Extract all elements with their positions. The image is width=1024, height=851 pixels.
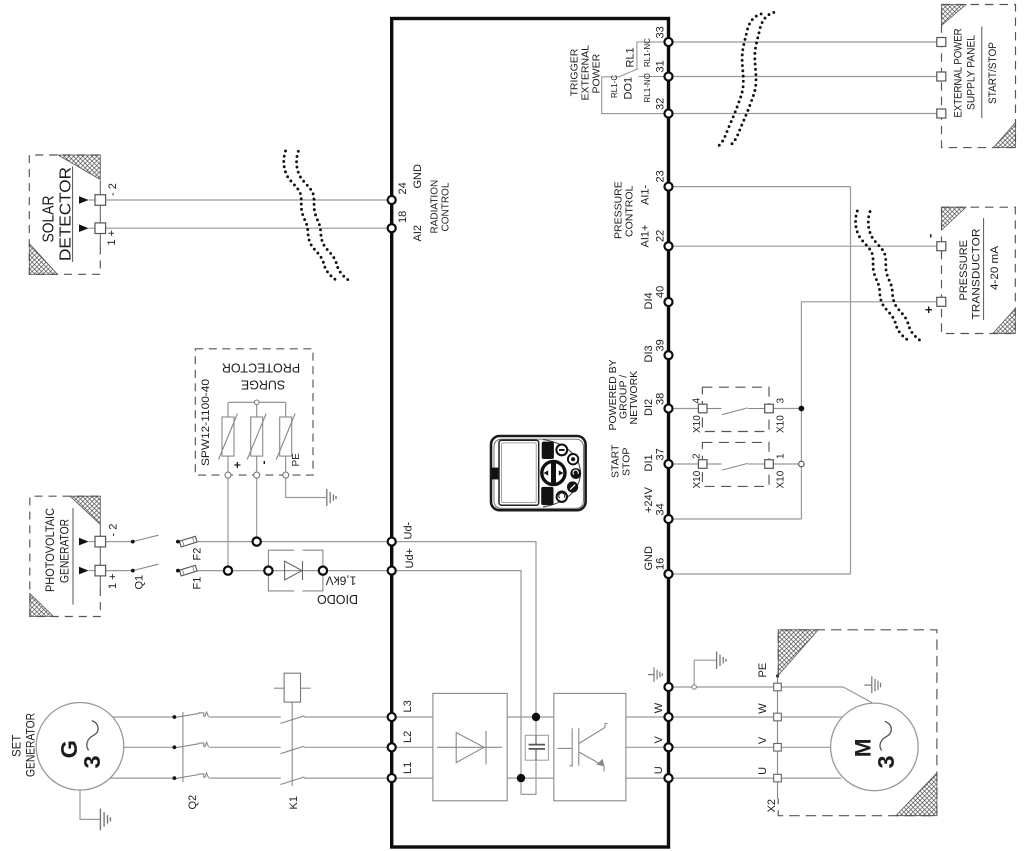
svg-text:33: 33: [655, 26, 667, 38]
svg-text:- 2: - 2: [107, 183, 119, 196]
relay RL1 arm: [619, 69, 639, 77]
PV arrow 1+: [79, 567, 89, 575]
svg-text:DO1: DO1: [623, 77, 635, 100]
svg-text:F1: F1: [192, 577, 204, 590]
breaker Q2 hook bottom: [199, 773, 209, 778]
svg-text:16: 16: [655, 558, 667, 570]
pressure transductor box: [942, 207, 1016, 333]
contactor K1 coil stub right: [301, 687, 311, 689]
svg-text:X2: X2: [766, 799, 778, 812]
wavy cable marker solar curve 1: [284, 151, 338, 281]
terminal 32: [664, 109, 672, 117]
hatch power panel box bottom-right: [994, 123, 1016, 148]
svg-text:Q2: Q2: [187, 795, 199, 810]
PV arrow -2: [79, 538, 89, 546]
svg-text:PHOTOVOLTAIC: PHOTOVOLTAIC: [45, 508, 57, 592]
wavy cable marker pressure curve 1: [856, 211, 910, 341]
terminal 23: [664, 183, 672, 191]
svg-text:3: 3: [873, 755, 899, 768]
wire generator phase L1: [110, 777, 174, 779]
ground generator: [100, 809, 110, 831]
terminal 34: [664, 515, 672, 523]
X2 connector line: [777, 676, 779, 798]
node open PE branch: [692, 685, 696, 689]
svg-text:K1: K1: [288, 796, 300, 809]
hatch pressure box bottom-right: [993, 309, 1016, 334]
svg-text:DIODO: DIODO: [317, 592, 358, 606]
svg-text:X10: X10: [692, 470, 703, 488]
switch Q1 blade lower: [133, 564, 159, 570]
svg-text:START/STOP: START/STOP: [987, 42, 999, 104]
node surge plus: [225, 472, 231, 478]
wire K1 to terminal L1: [304, 777, 387, 779]
contactor K1 linkage: [291, 702, 293, 786]
svg-text:PE: PE: [291, 453, 302, 467]
wire DC rail bottom: [507, 777, 554, 779]
wavy cable marker power curve 1: [729, 12, 774, 146]
wavy cable marker pressure curve 2: [868, 212, 922, 342]
svg-text:1: 1: [776, 453, 787, 459]
terminal square solar -2: [95, 195, 106, 206]
wire generator phase L2: [124, 746, 175, 748]
rectifier diode symbol: [437, 731, 502, 765]
varistor 1 surge: [219, 403, 238, 472]
svg-text:RL1-C: RL1-C: [610, 75, 619, 98]
wire K1 to terminal L3: [304, 716, 387, 718]
svg-text:+: +: [231, 461, 245, 468]
terminal W: [664, 713, 672, 721]
PV edge segments: [99, 525, 101, 589]
capacitor plates: [529, 735, 545, 760]
diode symbol: [285, 561, 303, 580]
X2 square V: [774, 744, 782, 752]
svg-text:3: 3: [79, 755, 105, 768]
wire terminal 23 AI1-: [674, 186, 851, 188]
wire X10-1 to +24V bus: [773, 463, 801, 465]
svg-text:1 +: 1 +: [106, 230, 118, 246]
wire solar -2 to terminal 24: [106, 199, 387, 201]
breaker Q2 hook mid: [199, 742, 209, 747]
hatch power panel box top-left: [942, 5, 967, 26]
svg-text:4-20 mA: 4-20 mA: [989, 245, 1001, 290]
switch Q1 blade upper: [133, 535, 159, 541]
terminal U: [664, 774, 672, 782]
node Q2 mid: [173, 745, 177, 749]
contactor K1 blade bottom: [281, 777, 305, 785]
ground surge PE: [327, 489, 336, 506]
svg-text:POWER: POWER: [591, 53, 603, 93]
wire inverter to U: [626, 777, 669, 779]
solar sensor arrow 1+: [79, 224, 89, 232]
solar label underline: [72, 166, 74, 262]
svg-text:RADIATION: RADIATION: [430, 180, 441, 234]
wire X2 PE to motor: [781, 686, 843, 688]
terminal 22: [664, 242, 672, 250]
svg-text:1 +: 1 +: [107, 573, 119, 589]
wire terminal U to X2: [674, 777, 774, 779]
X10 pin square 2: [698, 460, 707, 469]
motor sine squiggle: [880, 721, 891, 750]
fuse F1: [179, 565, 197, 576]
svg-text:L1: L1: [402, 762, 414, 774]
hatch motor box top-left: [778, 630, 818, 676]
pressure label underline: [983, 218, 985, 320]
capacitor DC link box: [525, 735, 548, 760]
terminal PE: [664, 683, 672, 691]
svg-text:32: 32: [655, 98, 667, 110]
varistor 3 surge: [276, 402, 295, 472]
svg-text:M: M: [851, 739, 876, 758]
svg-text:GND: GND: [643, 546, 655, 571]
X10 switch box upper: [702, 387, 769, 431]
node X2 top: [776, 674, 779, 677]
svg-text:38: 38: [655, 393, 667, 405]
svg-text:31: 31: [655, 60, 667, 72]
terminal Ud-: [388, 538, 396, 546]
svg-text:Q1: Q1: [134, 575, 146, 590]
terminal 37: [664, 460, 672, 468]
junction ring surge minus on Ud-: [253, 537, 261, 545]
node surge PE: [283, 472, 289, 478]
terminal 38: [664, 404, 672, 412]
terminal square transductor minus: [937, 242, 946, 251]
svg-text:DI3: DI3: [643, 345, 655, 362]
wire inverter to V: [626, 746, 669, 748]
wire X2 U to motor: [781, 777, 841, 779]
wire node 23 to 16 vertical: [850, 187, 852, 574]
wire surge PE lead to ground: [286, 478, 326, 498]
svg-text:AI2: AI2: [412, 225, 424, 242]
wire terminal 16 GND: [674, 573, 851, 575]
ground motor: [864, 676, 880, 693]
svg-text:2: 2: [692, 453, 703, 459]
svg-text:24: 24: [397, 182, 409, 194]
svg-text:U: U: [653, 766, 665, 774]
terminal square panel 32: [937, 109, 946, 118]
svg-text:DETECTOR: DETECTOR: [58, 167, 75, 261]
diode DIODO box: [268, 550, 323, 591]
wire terminal 31 to power panel: [674, 76, 937, 78]
wire Q2 to K1 top: [209, 716, 281, 718]
wire inverter to W: [626, 716, 669, 718]
wire terminal V to X2: [674, 746, 774, 748]
svg-text:4: 4: [692, 398, 703, 404]
svg-text:SET: SET: [12, 735, 24, 757]
terminal V: [664, 743, 672, 751]
svg-text:PROTECTOR: PROTECTOR: [222, 361, 300, 375]
X2 square U: [774, 774, 782, 782]
wire K1 to terminal L2: [304, 746, 387, 748]
inverter IGBT symbol: [557, 724, 607, 772]
svg-text:AI1-: AI1-: [640, 184, 652, 205]
wire Q2 to K1 mid: [209, 746, 281, 748]
node Q1 lower left: [131, 569, 135, 573]
svg-text:+24V: +24V: [643, 486, 655, 513]
external power supply panel box: [942, 5, 1016, 148]
terminal Ud+: [388, 567, 396, 575]
svg-text:DI1: DI1: [643, 454, 655, 471]
varistor 2 surge: [247, 405, 266, 473]
wire terminal 33 to power panel: [674, 41, 937, 43]
X2 square PE: [774, 683, 782, 691]
node surge top: [254, 400, 259, 405]
node Q2 top: [173, 715, 177, 719]
generator sine squiggle: [87, 721, 98, 751]
solar detector box: [29, 155, 100, 274]
rectifier box: [433, 693, 507, 800]
X10 pin square 4: [698, 404, 707, 413]
wire generator phase L3: [113, 716, 175, 718]
svg-text:TRANSDUCTOR: TRANSDUCTOR: [971, 228, 983, 319]
terminal square PV -2: [95, 536, 106, 547]
fuse F2: [179, 536, 197, 547]
svg-text:V: V: [653, 736, 665, 744]
svg-text:CONTROL: CONTROL: [624, 186, 636, 237]
svg-text:34: 34: [655, 503, 667, 515]
svg-text:GENERATOR: GENERATOR: [60, 519, 72, 583]
solar sensor arrow -2: [79, 196, 89, 204]
svg-text:PRESSURE: PRESSURE: [958, 240, 970, 301]
svg-text:STOP: STOP: [621, 448, 633, 476]
contactor K1 blade top: [281, 716, 305, 724]
node Q2 bottom: [173, 776, 177, 780]
wavy cable marker power curve 2: [716, 14, 761, 148]
wire transductor plus: [801, 301, 936, 303]
svg-text:3: 3: [776, 398, 787, 404]
svg-text:V: V: [757, 736, 769, 744]
wire Q1 to F1 to terminal Ud+: [178, 570, 387, 572]
generator G circle: [36, 703, 124, 791]
hatch solar box top-right: [58, 155, 100, 180]
breaker Q2 blade top: [174, 713, 199, 717]
wire terminal W to X2: [674, 716, 774, 718]
terminal 16: [664, 570, 672, 578]
wire node +24V bus vertical: [800, 302, 802, 519]
contactor K1 coil stub left: [274, 687, 284, 689]
wire terminal 34 +24V: [674, 518, 802, 520]
wire X2 V to motor: [781, 746, 830, 748]
hatch PV box top-right: [70, 496, 100, 524]
junction ring diode left: [264, 566, 272, 574]
svg-text:GENERATOR: GENERATOR: [26, 713, 38, 777]
svg-text:DI4: DI4: [643, 292, 655, 309]
svg-text:SURGE: SURGE: [241, 378, 285, 392]
wire PE branch up: [694, 660, 716, 687]
wire surge minus lead: [256, 478, 258, 542]
inverter box: [554, 693, 626, 800]
X10 contact lower: [707, 463, 766, 470]
motor box X2: [778, 630, 937, 816]
wire terminal PE to X2: [674, 686, 774, 688]
junction ring diode right: [319, 566, 327, 574]
wire Ud+ terminal to DC bus: [392, 571, 521, 795]
svg-text:RL1-NO: RL1-NO: [643, 73, 652, 102]
svg-text:18: 18: [397, 211, 409, 223]
relay RL1 wire from 33: [637, 42, 664, 69]
svg-text:EXTERNAL POWER: EXTERNAL POWER: [953, 28, 965, 117]
svg-text:22: 22: [655, 230, 667, 242]
wire DC bus bottom link: [521, 749, 536, 795]
svg-text:23: 23: [655, 170, 667, 182]
svg-text:40: 40: [655, 286, 667, 298]
svg-text:SOLAR: SOLAR: [41, 196, 58, 243]
svg-text:- 2: - 2: [108, 524, 120, 537]
relay DO1 box outline: [602, 77, 664, 114]
contactor K1 coil: [284, 673, 300, 702]
X10 contact upper: [707, 408, 766, 415]
photovoltaic generator box: [30, 496, 101, 616]
hatch PV box bottom-left: [30, 594, 54, 617]
keypad control panel: [491, 436, 586, 510]
hatch pressure box top-left: [942, 207, 967, 230]
wire X2 W to motor: [781, 716, 842, 718]
terminal square PV 1+: [95, 565, 106, 576]
wavy cable marker solar curve 2: [297, 151, 351, 281]
node Q1 lower right: [176, 569, 180, 573]
svg-text:39: 39: [655, 339, 667, 351]
terminal square solar 1+: [95, 223, 106, 234]
contactor K1 blade mid: [281, 746, 305, 754]
svg-text:+: +: [921, 306, 936, 314]
wire PE diagonal into motor: [843, 687, 872, 703]
breaker Q2 linkage: [182, 712, 184, 782]
svg-text:SUPPLY PANEL: SUPPLY PANEL: [966, 35, 978, 110]
junction ring surge plus on Ud+: [224, 566, 232, 574]
wire PV -2 to Q1: [106, 541, 133, 543]
node surge minus: [254, 472, 260, 478]
wire row L1 inside drive: [392, 777, 433, 779]
wire generator to ground: [80, 790, 100, 819]
svg-text:-: -: [257, 461, 271, 465]
drive main box: [392, 19, 669, 848]
wire terminal 37 DI1 to X10-2: [674, 463, 699, 465]
wire PV 1+ to Q1: [106, 570, 133, 572]
surge top bus: [228, 401, 286, 403]
terminal 39: [664, 351, 672, 359]
hatch motor box bottom-right: [896, 773, 937, 816]
svg-text:AI1+: AI1+: [640, 225, 652, 248]
terminal 18: [388, 224, 396, 232]
X2 square W: [774, 713, 782, 721]
svg-text:RL1: RL1: [625, 47, 637, 67]
wire row L3-W inside drive: [392, 716, 433, 718]
svg-text:W: W: [757, 703, 769, 714]
wire terminal 22 AI1+ to transductor minus: [674, 245, 937, 247]
svg-text:1,6kV: 1,6kV: [326, 574, 357, 588]
terminal 31: [664, 72, 672, 80]
svg-text:Ud+: Ud+: [404, 548, 416, 569]
svg-text:PE: PE: [757, 663, 769, 678]
svg-text:CONTROL: CONTROL: [441, 182, 452, 231]
node Q1 upper right: [176, 540, 180, 544]
hatch solar box bottom-left: [29, 244, 57, 275]
node Q1 upper left: [131, 540, 135, 544]
X10 switch box lower: [702, 442, 769, 486]
svg-text:GND: GND: [412, 164, 424, 189]
X10 pin square 3: [765, 404, 774, 413]
wire terminal 38 DI2 to X10-4: [674, 408, 699, 410]
terminal 33: [664, 38, 672, 46]
ground drive PE internal: [648, 667, 662, 681]
svg-text:-: -: [922, 234, 937, 238]
terminal L2: [388, 743, 396, 751]
node junction X10-3 bus: [799, 406, 805, 412]
svg-text:X10: X10: [692, 415, 703, 433]
motor M circle: [831, 703, 919, 791]
wire Q1 to F2 to terminal Ud-: [178, 541, 387, 543]
ground PE branch: [717, 652, 726, 670]
svg-text:F2: F2: [192, 548, 204, 561]
svg-text:X10: X10: [776, 415, 787, 433]
svg-text:37: 37: [655, 448, 667, 460]
wire X10-3 to +24V bus: [773, 408, 801, 410]
svg-text:L3: L3: [402, 700, 414, 712]
surge protector box: [195, 349, 313, 475]
wire Q2 to K1 bottom: [209, 777, 281, 779]
wire surge plus lead: [227, 478, 229, 571]
svg-text:W: W: [653, 702, 665, 713]
svg-text:NETWORK: NETWORK: [628, 371, 640, 425]
solar detector edge segments: [99, 181, 101, 247]
terminal square transductor plus: [937, 297, 946, 306]
terminal 24: [388, 196, 396, 204]
svg-text:L2: L2: [402, 731, 414, 743]
power panel label underline: [981, 27, 983, 119]
wire row L2 into rectifier: [392, 746, 503, 748]
node open X10-1 bus: [799, 461, 805, 467]
terminal square panel 33: [937, 38, 946, 47]
relay wire from 31: [639, 76, 664, 78]
wire terminal 32 to power panel: [674, 113, 937, 115]
svg-text:Ud-: Ud-: [403, 521, 415, 539]
X10 pin square 1: [765, 460, 774, 469]
svg-text:RL1-NC: RL1-NC: [643, 38, 652, 67]
wire solar 1+ to terminal 18: [106, 227, 387, 229]
breaker Q2 blade mid: [174, 744, 199, 748]
node DC rail bottom junction: [517, 774, 525, 782]
svg-text:SPW12-1100-40: SPW12-1100-40: [200, 379, 212, 466]
wire Ud- terminal to DC bus: [392, 542, 536, 745]
breaker Q2 hook top: [199, 712, 209, 717]
breaker Q2 blade bottom: [174, 775, 199, 779]
svg-text:U: U: [757, 767, 769, 775]
node DC rail top junction: [532, 713, 540, 721]
PV label underline: [72, 508, 74, 605]
svg-text:DI2: DI2: [643, 399, 655, 416]
svg-text:X10: X10: [776, 470, 787, 488]
wire DC rail top: [507, 716, 554, 718]
terminal L1: [388, 774, 396, 782]
terminal square panel 31: [937, 72, 946, 81]
terminal L3: [388, 713, 396, 721]
terminal 40: [664, 298, 672, 306]
